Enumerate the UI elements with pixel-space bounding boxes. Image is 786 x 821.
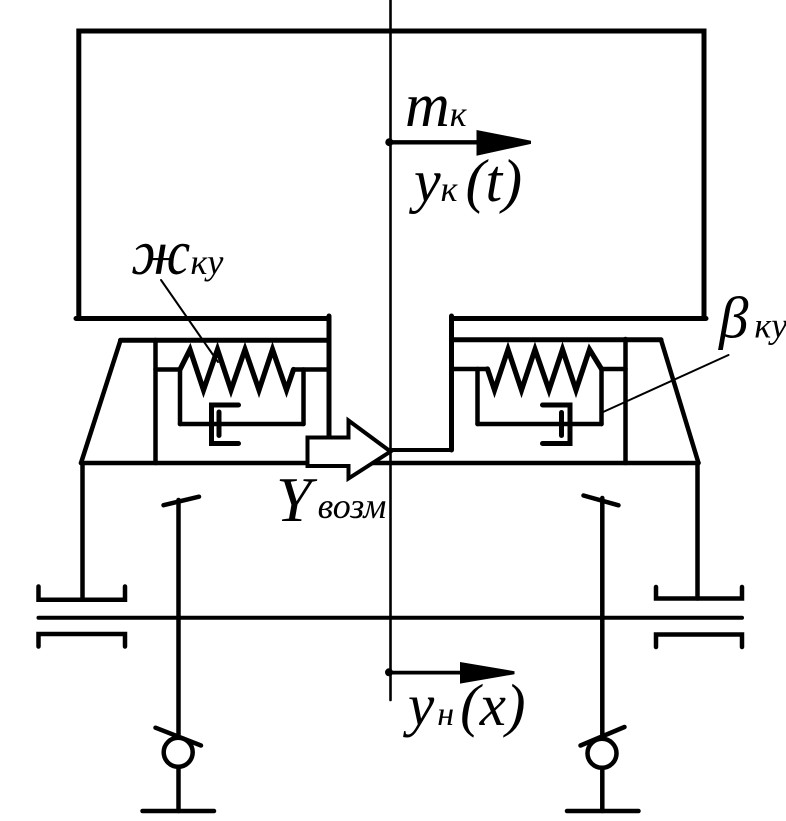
spring Zh_ku right lead bbox=[294, 367, 330, 372]
spring Zh_ku left lead bbox=[156, 367, 181, 372]
body bottom-right shelf bbox=[452, 316, 707, 321]
left wheel top hinge tick bbox=[164, 497, 200, 506]
left wheel slash bbox=[156, 728, 202, 746]
bogie right suspension top bar bbox=[452, 337, 661, 342]
y_n direction arrow line bbox=[390, 671, 470, 675]
node dot on centerline (m_k) bbox=[385, 138, 393, 146]
left wheel column bbox=[176, 500, 181, 811]
left damper piston plate bbox=[217, 412, 222, 436]
right wheel top hinge tick bbox=[584, 496, 619, 506]
right wheel column bbox=[600, 498, 605, 811]
spring B_ku left lead (right assembly) bbox=[452, 367, 488, 372]
car body mass m_k (rectangle) bbox=[79, 31, 704, 319]
centerline (vertical axis) bbox=[389, 0, 392, 700]
right damper cylinder bracket bbox=[543, 405, 571, 444]
right axlebox top bracket bbox=[656, 587, 742, 599]
left ground line bbox=[143, 809, 215, 814]
left damper cylinder bracket bbox=[212, 405, 239, 444]
right suspension box right wall bbox=[623, 339, 628, 463]
right axlebox bottom bracket bbox=[656, 635, 742, 648]
m_k direction arrow head bbox=[477, 130, 532, 156]
svg-text:yк(t): yк(t) bbox=[408, 148, 522, 214]
left suspension box left wall bbox=[153, 340, 158, 463]
bogie bottom line bbox=[81, 461, 699, 466]
body right notch horizontal bbox=[391, 448, 452, 452]
bogie right slant side bbox=[661, 340, 699, 463]
left axlebox top bracket bbox=[39, 587, 126, 600]
bogie left leg bbox=[80, 463, 85, 600]
bogie left suspension top bar bbox=[121, 338, 330, 343]
right wheel slash bbox=[581, 727, 625, 746]
left wheel circle bbox=[164, 738, 193, 767]
bogie right leg bbox=[695, 463, 700, 599]
spring (right) zigzag bbox=[488, 350, 602, 391]
right ground line bbox=[567, 809, 639, 814]
axle line (rail level) bbox=[39, 616, 743, 620]
leader line for B_ku label bbox=[602, 355, 729, 413]
body right notch vertical bbox=[449, 316, 454, 450]
m_k direction arrow line bbox=[390, 140, 490, 144]
bogie left slant side bbox=[81, 340, 121, 463]
svg-text:yн(x): yн(x) bbox=[403, 672, 526, 738]
leader line for Zh_ku label bbox=[161, 280, 218, 362]
right damper piston plate bbox=[559, 413, 564, 436]
hollow excitation arrow Y_vozm bbox=[308, 421, 391, 479]
left damper loop bottom rod bbox=[180, 422, 304, 427]
left damper loop left wall bbox=[178, 370, 183, 425]
right damper loop left wall bbox=[475, 369, 480, 424]
right damper loop bottom rod bbox=[478, 422, 602, 427]
body bottom-left shelf bbox=[76, 316, 329, 321]
node dot on centerline (y_n) bbox=[385, 668, 393, 676]
left damper loop right wall bbox=[301, 370, 306, 425]
spring Zh_ku (left) zigzag bbox=[180, 350, 294, 391]
y_n direction arrow head bbox=[460, 662, 515, 684]
left axlebox bottom bracket bbox=[39, 634, 126, 647]
body left notch vertical bbox=[327, 316, 332, 450]
right wheel circle bbox=[588, 739, 617, 768]
right damper loop right wall bbox=[599, 369, 604, 424]
spring right lead (right assembly) bbox=[602, 367, 626, 372]
body left notch horizontal bbox=[329, 448, 391, 452]
